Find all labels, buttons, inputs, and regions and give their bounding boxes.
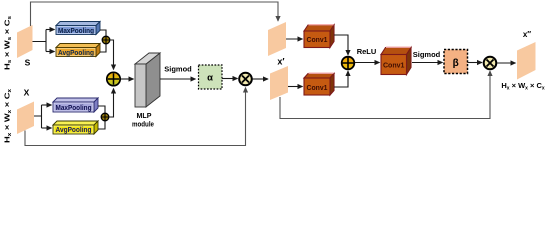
wire Conv1 top to add 2 [334, 35, 348, 55]
label Hx x Wx x Cx (vertical, X branch) [3, 89, 14, 143]
wire small add (X) to main add [109, 89, 114, 118]
svg-text:Hx × Wx × Cx: Hx × Wx × Cx [501, 81, 545, 91]
wire upper parallelogram to Conv1 (top) [286, 38, 303, 40]
svg-text:MaxPooling: MaxPooling [56, 105, 92, 112]
feature map S (parallelogram) [17, 25, 33, 58]
wire x' to Conv1 (bottom) [288, 86, 303, 88]
wire MLP to alpha [160, 78, 196, 80]
wire Conv1 right to beta [412, 62, 443, 64]
wire AvgPooling(S) to small add [100, 44, 106, 52]
wire small add (S) to main add [110, 40, 114, 70]
svg-text:MLP: MLP [137, 113, 152, 120]
multiply node 1 [239, 73, 252, 86]
MaxPooling box (X branch) [53, 98, 98, 112]
feature map upper-right (S resized, parallelogram) [268, 22, 286, 56]
svg-text:x″: x″ [523, 30, 531, 39]
arrow into AvgPooling (X branch) [42, 127, 52, 129]
beta box [444, 50, 468, 74]
multiply node 2 [484, 57, 497, 70]
Conv1 box (right) [381, 47, 411, 74]
wire x' bottom rail to multiply 2 [280, 71, 490, 119]
Conv1 box (top) [304, 25, 334, 48]
svg-text:ReLU: ReLU [357, 47, 377, 56]
Conv1 box (bottom) [304, 73, 334, 95]
wire multiply 1 to x' [253, 78, 269, 80]
wire alpha to multiply 1 [222, 78, 238, 80]
feature map X (parallelogram) [17, 102, 34, 135]
wire MaxPooling(X) to small add [98, 106, 105, 113]
svg-text:α: α [207, 73, 213, 84]
svg-text:AvgPooling: AvgPooling [58, 50, 94, 57]
wire AvgPooling(X) to small add [98, 121, 105, 129]
wire beta to multiply 2 [468, 62, 483, 64]
svg-text:Sigmod: Sigmod [413, 50, 441, 59]
svg-text:S: S [25, 58, 31, 68]
feature map x'' (parallelogram) [517, 42, 536, 80]
wire multiply 2 to x'' [497, 62, 516, 64]
MaxPooling box (S branch) [56, 22, 100, 35]
arrow into MaxPooling (S branch) [46, 29, 55, 31]
svg-text:MaxPooling: MaxPooling [58, 28, 94, 35]
wire X bottom rail to multiply 1 [25, 88, 246, 146]
wire main add to MLP [121, 78, 134, 80]
svg-text:Conv1: Conv1 [307, 35, 328, 44]
feature map x' (parallelogram) [270, 66, 288, 100]
wire MaxPooling(S) to small add [100, 30, 106, 36]
wire Conv1 bottom to add 2 [334, 71, 348, 87]
arrow into AvgPooling (S branch) [46, 51, 55, 53]
wire S to top rail to upper-right parallelogram [31, 2, 279, 26]
svg-text:x′: x′ [277, 57, 284, 67]
MLP module slab [135, 53, 160, 107]
label Hs x Ws x Cs (vertical, S branch) [3, 16, 14, 70]
svg-text:AvgPooling: AvgPooling [56, 127, 92, 134]
add node (S pooling sum) [102, 36, 110, 44]
svg-text:β: β [453, 58, 459, 69]
wire S to pooling split bracket [33, 30, 47, 52]
svg-text:Hx × Wx × Cx: Hx × Wx × Cx [3, 89, 14, 143]
svg-text:Conv1: Conv1 [307, 83, 328, 92]
wire add 2 to Conv1 (right) [355, 62, 380, 64]
svg-text:X: X [24, 88, 30, 98]
add node (X pooling sum) [101, 113, 109, 121]
AvgPooling box (S branch) [56, 44, 100, 57]
arrow into MaxPooling (X branch) [42, 104, 52, 106]
wire X to pooling split bracket [34, 105, 42, 128]
svg-text:module: module [132, 122, 154, 129]
svg-text:Hs × Ws × Cs: Hs × Ws × Cs [3, 16, 14, 70]
add node 2 [342, 57, 355, 70]
main add node [107, 72, 120, 85]
svg-text:Conv1: Conv1 [383, 61, 405, 70]
AvgPooling box (X branch) [53, 121, 98, 134]
alpha box [199, 65, 223, 89]
svg-text:Sigmod: Sigmod [164, 64, 192, 73]
